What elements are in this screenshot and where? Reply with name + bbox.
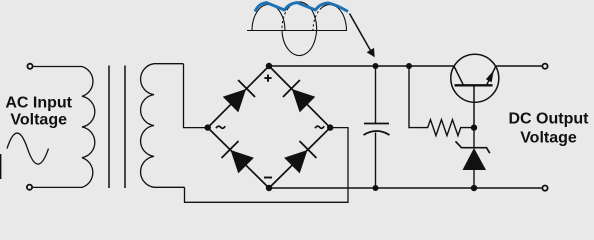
- wire: emitter to DC output terminal: [496, 65, 542, 67]
- transistor Q1 base lead down: [473, 85, 475, 127]
- transformer core line (left): [108, 66, 110, 189]
- wire: positive top rail (bridge + to transistor collector): [269, 65, 454, 67]
- svg-text:Voltage: Voltage: [520, 129, 577, 146]
- waveform dashed flank (arch 2): [282, 8, 288, 29]
- capacitor C1 (filter) top lead: [375, 66, 377, 124]
- AC source sine symbol: [7, 133, 49, 164]
- annotation arrow line to cap node: [350, 14, 372, 52]
- waveform arch 3 (rectified half-cycle): [321, 5, 346, 31]
- left edge crop artifact line: [0, 154, 2, 179]
- transistor Q1 base bar: [455, 84, 493, 86]
- waveform dashed flank (arch 3): [313, 8, 321, 31]
- zener diode Z1 lead from node: [473, 128, 475, 148]
- waveform full sine ellipse (half-cycle below line): [282, 2, 317, 56]
- node: bridge + (top): [266, 63, 272, 69]
- transistor Q1 collector lead: [454, 66, 464, 85]
- waveform sketch: baseline: [247, 30, 347, 32]
- label -: [264, 177, 272, 179]
- diode D3 (bridge upper-right): [283, 80, 316, 113]
- bridge rectifier diamond wires: [208, 66, 331, 188]
- DC output terminal (bottom): [542, 186, 547, 191]
- AC input terminal (bottom): [27, 185, 32, 190]
- transistor Q1 emitter arrowhead: [486, 70, 494, 82]
- annotation arrowhead: [367, 48, 375, 57]
- AC input terminal (top): [27, 64, 32, 69]
- wire: AC top lead + transformer primary winding: [33, 67, 95, 188]
- label ~ (right): [315, 126, 324, 128]
- wire: negative bottom rail (bridge - to output): [269, 187, 542, 189]
- label ~ (left): [216, 126, 225, 128]
- node: base / zener junction: [471, 124, 477, 130]
- label +: [264, 75, 271, 82]
- capacitor C1 bottom lead: [375, 133, 377, 189]
- node: filter cap bottom junction: [373, 185, 379, 191]
- zener diode Z1 triangle (anode, pointing up): [463, 148, 487, 170]
- diode D4 (bridge lower-right): [283, 141, 316, 174]
- svg-text:DC Output: DC Output: [509, 111, 590, 128]
- wire: secondary bottom to bridge AC-right node: [185, 128, 349, 203]
- svg-text:Voltage: Voltage: [10, 111, 67, 128]
- filtered DC ripple curve (blue): [255, 3, 348, 12]
- node: resistor feed junction on top rail: [406, 63, 412, 69]
- node: bridge AC right: [327, 124, 333, 130]
- transformer secondary winding + leads: [141, 64, 185, 188]
- node: filter cap top junction: [373, 63, 379, 69]
- wire: secondary top to bridge AC-left node: [184, 64, 206, 128]
- node: zener to bottom rail: [471, 185, 477, 191]
- capacitor C1 top plate: [364, 123, 389, 125]
- waveform arch 1 (rectified half-cycle): [252, 5, 285, 31]
- diode D2 (bridge upper-left): [222, 80, 255, 113]
- DC output terminal (top): [542, 64, 547, 69]
- zener diode Z1 bottom lead: [473, 169, 475, 188]
- diode D1 (bridge lower-left): [222, 141, 255, 174]
- zener diode Z1 cathode bar with bent tails: [456, 141, 490, 153]
- node: bridge - (bottom): [266, 185, 272, 191]
- capacitor C1 bottom plate (curved): [364, 131, 390, 135]
- transistor Q1 circle: [451, 54, 499, 102]
- resistor R1 (base bias) with feed wire: [409, 66, 474, 136]
- node: bridge AC left: [205, 124, 211, 130]
- transformer core line (right): [124, 66, 126, 189]
- transistor Q1 emitter lead: [487, 66, 496, 85]
- svg-text:AC Input: AC Input: [5, 95, 72, 112]
